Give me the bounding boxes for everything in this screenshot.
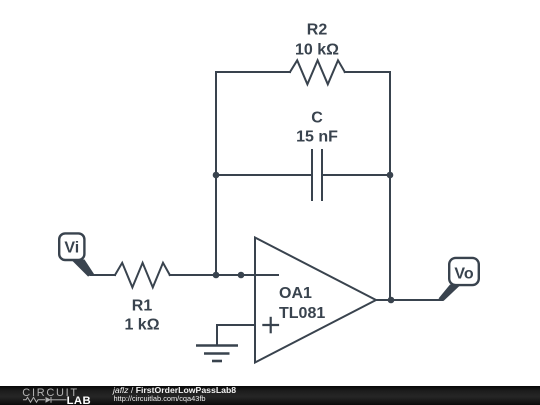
wire right vertical feedback bbox=[389, 72, 391, 300]
node junction at C right bbox=[387, 172, 394, 179]
svg-text:LAB: LAB bbox=[67, 395, 91, 405]
wire R1 to op-amp inverting input (with minus pin stub) bbox=[170, 274, 278, 276]
footer url text bbox=[114, 395, 206, 402]
svg-text:1 kΩ: 1 kΩ bbox=[124, 317, 159, 334]
footer logo CIRCUIT LAB bbox=[14, 386, 100, 405]
svg-text:15 nF: 15 nF bbox=[296, 129, 338, 146]
footer title text bbox=[113, 386, 236, 395]
node junction at output bbox=[388, 297, 395, 304]
node junction at C left bbox=[213, 172, 220, 179]
svg-text:TL081: TL081 bbox=[279, 305, 325, 322]
wire capacitor left lead bbox=[216, 174, 312, 176]
op-amp plus sign bbox=[262, 317, 279, 334]
resistor R2 bbox=[290, 60, 345, 84]
wire top-right feedback segment bbox=[345, 71, 390, 73]
svg-text:Vi: Vi bbox=[64, 240, 79, 257]
node junction at inverting input left bbox=[213, 272, 220, 279]
node junction at inverting input right bbox=[238, 272, 245, 279]
wire capacitor right lead bbox=[322, 174, 390, 176]
wire ground stem bbox=[216, 325, 218, 345]
svg-text:R1: R1 bbox=[132, 298, 153, 315]
op-amp OA1 triangle bbox=[255, 238, 376, 363]
wire top-left feedback segment bbox=[216, 71, 290, 73]
capacitor C plates bbox=[312, 150, 322, 200]
footer bar bbox=[0, 386, 540, 405]
ground bbox=[196, 346, 238, 362]
resistor R1 bbox=[115, 263, 170, 288]
svg-text:10 kΩ: 10 kΩ bbox=[295, 42, 339, 59]
flag Vi bbox=[59, 233, 94, 276]
svg-text:Vo: Vo bbox=[454, 266, 473, 283]
wire input from Vi bbox=[91, 274, 115, 276]
svg-text:C: C bbox=[311, 109, 323, 126]
wire non-inverting pin bbox=[217, 324, 255, 326]
svg-text:OA1: OA1 bbox=[279, 285, 312, 302]
svg-text:R2: R2 bbox=[307, 22, 328, 39]
flag Vo bbox=[439, 258, 479, 301]
wire op-amp output bbox=[376, 299, 442, 301]
wire left vertical feedback bbox=[215, 72, 217, 275]
